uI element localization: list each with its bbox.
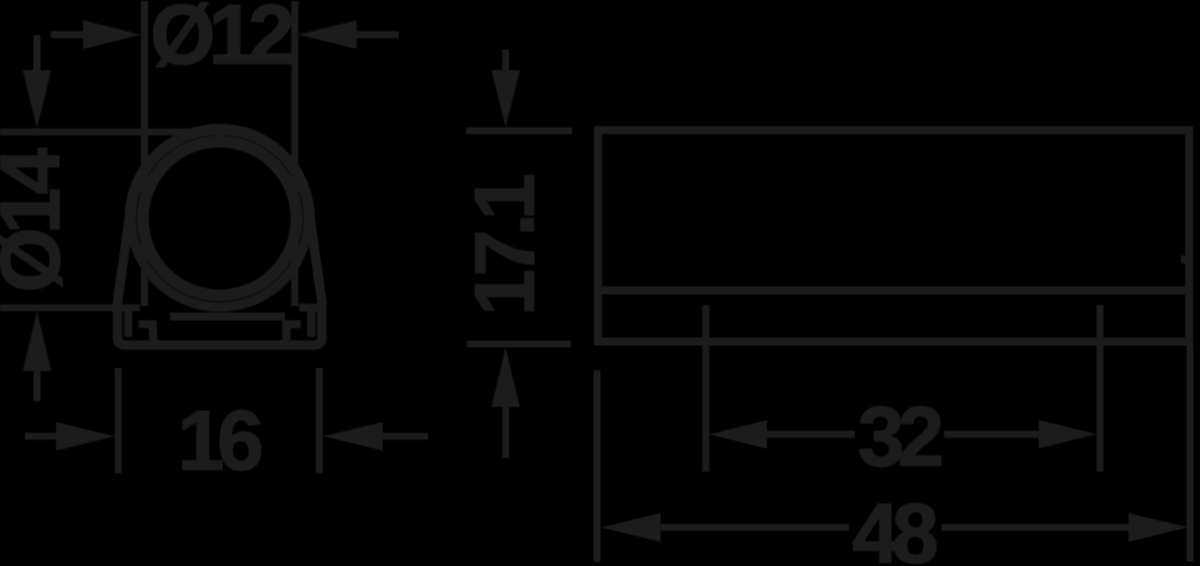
dimension 48 right extension line: [1187, 345, 1194, 562]
dimension 16 right extension line: [316, 368, 323, 473]
dimension 16 left extension line: [115, 368, 122, 473]
dimension Ø12 left extension line: [141, 1, 148, 306]
svg-text:32: 32: [858, 390, 942, 484]
front view base right foot step: [286, 324, 300, 345]
dimension Ø12 left arrow tail: [51, 31, 83, 38]
dimension 32 left arrowhead: [709, 420, 767, 449]
svg-text:16: 16: [177, 394, 261, 488]
dimension 16 left arrow tail: [25, 433, 57, 440]
dimension Ø14 top arrowhead: [23, 70, 52, 128]
dimension Ø14 top extension line: [0, 128, 230, 135]
dimension 48 left extension line: [594, 370, 601, 562]
dimension 48 right arrowhead: [1128, 513, 1188, 542]
dimension 32 right arrowhead: [1039, 420, 1097, 449]
dimension Ø14 top arrow tail: [34, 35, 41, 70]
front view base seat line: [170, 313, 285, 321]
dimension 17.1 bottom arrowhead: [491, 348, 520, 408]
dimension 48 left arrowhead: [601, 513, 661, 542]
front view base step line right: [299, 304, 322, 312]
dimension 17.1 bottom arrow tail: [502, 407, 509, 458]
front view base left foot vertical: [124, 310, 132, 337]
dimension Ø14 bottom arrow tail: [34, 371, 41, 401]
front view outer profile: [118, 129, 322, 346]
dimension 32 left extension line: [702, 305, 709, 472]
dimension 32 right arrow tail: [944, 431, 1039, 438]
dimension Ø12 right arrow tail: [357, 31, 399, 38]
svg-text:Ø12: Ø12: [150, 0, 292, 82]
dimension Ø12 left arrowhead: [83, 20, 141, 49]
dimension 16 right arrow tail: [382, 433, 428, 440]
dimension 48 right arrow tail: [942, 524, 1130, 531]
svg-text:48: 48: [852, 487, 937, 566]
dimension Ø14 bottom extension line: [0, 304, 140, 311]
dimension 16 right arrowhead: [323, 422, 383, 451]
side view flange line: [598, 286, 1189, 294]
dimension Ø12 right extension line: [291, 1, 298, 306]
dimension 32 right extension line: [1097, 305, 1104, 472]
front view tube inner circle Ø12: [143, 142, 297, 296]
svg-text:Ø14: Ø14: [0, 148, 77, 293]
dimension 17.1 top arrow tail: [502, 50, 509, 71]
dimension Ø14 bottom arrowhead: [23, 311, 52, 371]
dimension 17.1 bottom extension line: [467, 341, 571, 348]
dimension 16 left arrowhead: [56, 422, 115, 451]
front view base right foot vertical: [307, 310, 315, 337]
front view base left foot step: [139, 324, 153, 345]
svg-text:17.1: 17.1: [458, 175, 552, 316]
side view body rectangle: [598, 130, 1189, 342]
dimension 17.1 top extension line: [466, 127, 572, 134]
side view right edge tick: [1181, 255, 1189, 263]
dimension 32 left arrow tail: [767, 431, 855, 438]
dimension Ø12 right arrowhead: [298, 20, 356, 49]
front view tube outer circle Ø14: [131, 130, 308, 307]
dimension 48 left arrow tail: [661, 524, 849, 531]
dimension 17.1 top arrowhead: [491, 70, 520, 127]
